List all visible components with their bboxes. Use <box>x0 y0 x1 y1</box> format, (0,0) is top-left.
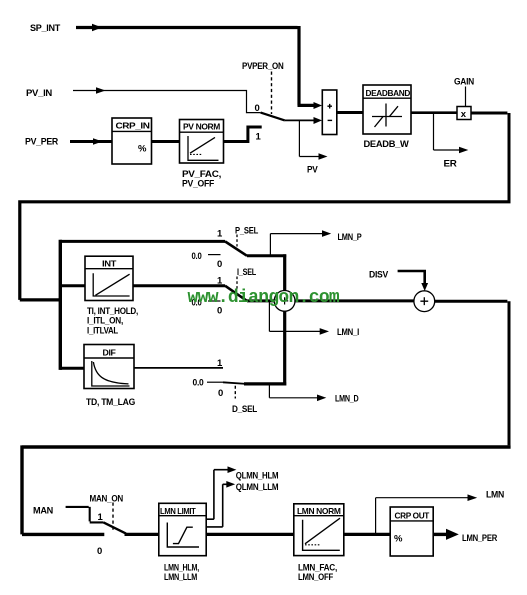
svg-text:PV: PV <box>307 165 318 176</box>
svg-text:DEADBAND: DEADBAND <box>366 88 411 98</box>
wire MAN to switch input 1 <box>66 507 104 523</box>
wire LMN_LIMIT to LMN_NORM <box>206 533 294 536</box>
svg-text:PVPER_ON: PVPER_ON <box>242 61 284 72</box>
svg-text:LMN_P: LMN_P <box>338 232 363 243</box>
svg-text:TD, TM_LAG: TD, TM_LAG <box>86 397 135 408</box>
svg-text:ER: ER <box>444 159 457 170</box>
wire P 0.0 tick <box>208 254 221 256</box>
svg-text:PV NORM: PV NORM <box>183 122 220 132</box>
svg-text:%: % <box>394 534 403 545</box>
wire MAN_ON dashed <box>112 503 114 533</box>
wire INT input <box>60 284 85 287</box>
wire CRP_IN to PV_NORM <box>152 140 180 143</box>
wire CRP_OUT output LMN_PER <box>433 533 447 536</box>
block INT <box>85 256 133 300</box>
wire PV_PER to CRP_IN <box>70 140 112 143</box>
wire QLMN_LLM tap <box>206 484 227 527</box>
svg-text:PV_OFF: PV_OFF <box>182 179 214 190</box>
wire switch to summer minus <box>285 119 314 121</box>
svg-text:LMN_I: LMN_I <box>337 327 359 338</box>
wire LMN_D tap <box>269 385 317 398</box>
multiplier box x <box>457 107 471 121</box>
svg-text:DISV: DISV <box>369 270 389 281</box>
wire I 0.0 tick <box>208 300 221 302</box>
wire P branch <box>60 240 225 243</box>
svg-text:LMN_D: LMN_D <box>335 394 359 405</box>
svg-text:PV_IN: PV_IN <box>26 88 52 99</box>
svg-text:CRP OUT: CRP OUT <box>395 511 431 521</box>
svg-text:LMN NORM: LMN NORM <box>297 506 341 516</box>
switch PVPER_ON arm <box>261 113 285 121</box>
svg-text:QLMN_HLM: QLMN_HLM <box>236 471 279 482</box>
switch D_SEL arm <box>223 382 246 384</box>
wire P_SEL dashed <box>236 235 238 247</box>
svg-text:%: % <box>138 144 147 155</box>
wire PVPER_ON dashed control line <box>271 72 273 115</box>
junction summer circle <box>274 291 295 312</box>
svg-text:INT: INT <box>102 258 117 268</box>
svg-text:0: 0 <box>218 388 223 399</box>
svg-text:0: 0 <box>255 103 260 114</box>
wire DIF input <box>60 367 84 370</box>
block LMN_LIMIT <box>159 503 206 555</box>
wire bus P output down <box>283 254 286 291</box>
wire DISV to summer <box>398 270 425 284</box>
block PV_NORM <box>180 120 224 164</box>
svg-text:LMN LIMIT: LMN LIMIT <box>160 506 197 516</box>
svg-text:GAIN: GAIN <box>454 77 474 88</box>
wire SP_INT to summer <box>76 26 314 105</box>
svg-text:0.0: 0.0 <box>192 251 202 262</box>
switch P_SEL arm <box>225 241 247 255</box>
wire QLMN_HLM tap <box>206 470 228 520</box>
svg-text:0: 0 <box>217 259 222 270</box>
wire LMN_I tap <box>269 302 320 331</box>
wire PV_NORM to switch input 1 <box>224 127 262 143</box>
wire I switch output <box>247 299 275 302</box>
svg-text:LMN_PER: LMN_PER <box>462 533 497 544</box>
svg-text:LMN: LMN <box>486 490 504 501</box>
block DIF <box>84 345 134 389</box>
wire multiplier to right bus <box>471 113 509 201</box>
svg-text:DIF: DIF <box>103 348 116 358</box>
switch MAN_ON arm <box>104 522 127 533</box>
svg-text:SP_INT: SP_INT <box>30 23 60 34</box>
svg-text:MAN: MAN <box>33 506 53 517</box>
block LMN_NORM <box>294 504 344 556</box>
switch I_SEL arm <box>225 286 247 301</box>
svg-text:www.diangon.com: www.diangon.com <box>188 288 340 308</box>
svg-text:I_ITLVAL: I_ITLVAL <box>87 325 118 336</box>
wire P switch output <box>247 254 286 257</box>
svg-text:LMN_LLM: LMN_LLM <box>164 572 197 583</box>
svg-text:P_SEL: P_SEL <box>235 226 258 237</box>
wire ER branch <box>434 113 460 150</box>
block CRP_IN <box>112 118 152 164</box>
wire I_SEL dashed <box>236 277 238 289</box>
wire D switch output <box>244 382 286 385</box>
wire LMN_P tap <box>270 234 322 255</box>
svg-text:PV_PER: PV_PER <box>25 137 58 148</box>
wire switch to LMN_LIMIT <box>125 533 159 536</box>
svg-text:I_SEL: I_SEL <box>237 267 256 278</box>
svg-text:QLMN_LLM: QLMN_LLM <box>236 482 279 493</box>
wire bus circle down to D row <box>283 311 286 386</box>
wire LMN tap <box>376 498 468 535</box>
wire DEADBAND to GAIN multiplier <box>411 111 457 114</box>
svg-text:0.0: 0.0 <box>193 377 204 388</box>
wire ER feedback loop <box>20 200 511 300</box>
wire D 0.0 tick <box>207 381 223 383</box>
svg-text:MAN_ON: MAN_ON <box>90 494 124 505</box>
svg-text:LMN_OFF: LMN_OFF <box>298 572 333 583</box>
block CRP_OUT <box>390 507 433 556</box>
summer circle DISV <box>414 291 435 312</box>
svg-text:D_SEL: D_SEL <box>232 404 257 415</box>
wire summer to DEADBAND <box>337 111 363 114</box>
wire GAIN stem <box>465 87 467 107</box>
summer plus-minus box <box>322 90 337 135</box>
wire LMN_NORM to CRP_OUT <box>344 533 390 536</box>
wire PID distribution bus <box>59 240 62 370</box>
wire INT output <box>133 284 225 287</box>
svg-text:DEADB_W: DEADB_W <box>364 139 409 150</box>
svg-text:0: 0 <box>97 546 102 557</box>
wire junction to DISV summer <box>294 299 414 302</box>
wire summer to right bus down <box>434 301 509 445</box>
svg-text:CRP_IN: CRP_IN <box>116 121 150 131</box>
wire D_SEL dashed <box>234 386 236 399</box>
wire PV_IN to switch input 0 <box>73 91 261 113</box>
block DEADBAND <box>363 85 411 134</box>
wire return loop to manual switch <box>22 445 511 534</box>
wire PV branch <box>299 120 319 156</box>
wire DIF output <box>134 367 223 369</box>
